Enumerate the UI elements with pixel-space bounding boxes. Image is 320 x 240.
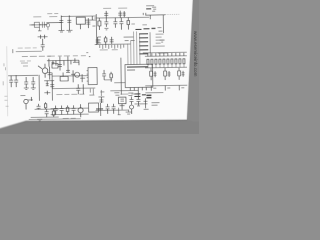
transistor Q800: [46, 23, 50, 30]
tick row below bus: [100, 45, 124, 49]
labels above cluster: [48, 55, 86, 58]
dark blob component: [146, 95, 151, 98]
resistor R806: [52, 109, 55, 117]
cluster x42-56: [44, 81, 54, 95]
diode D802: [134, 98, 148, 109]
right gray bar: [187, 0, 201, 122]
IC U1 label: [127, 67, 148, 70]
resistor R830 left of IC: [110, 72, 113, 82]
capacitor C806: [118, 11, 126, 18]
resistor R808: [66, 105, 69, 114]
capacitor C812 above bus: [110, 36, 135, 43]
transistor QG (green amp): [164, 68, 171, 80]
bottom center row rails: [51, 108, 89, 115]
capacitor C807: [104, 18, 108, 30]
capacitor C818: [45, 109, 49, 117]
wire: bottom-left rail y116.5: [31, 116, 59, 118]
wire: rail y110.5: [96, 109, 129, 111]
label: top-left values: [33, 14, 58, 17]
ticks below U802: [89, 89, 94, 96]
capacitor C816 with ground: [31, 77, 36, 90]
capacitor C809: [146, 8, 151, 10]
capacitor C801: [42, 22, 47, 28]
capacitor C814: [14, 75, 18, 87]
wire: vertical x52 center: [51, 73, 53, 101]
ground for C802: [58, 28, 64, 32]
resistor R802: [98, 18, 101, 30]
label bottom: [63, 117, 76, 119]
wire: vertical left of IC: [120, 58, 123, 95]
wire: right rail y57 with ticks: [145, 53, 187, 57]
resistor R801: [31, 22, 41, 31]
wire: to filter caps: [46, 21, 61, 23]
transistor Q804: [129, 96, 140, 114]
transistor Q805: [24, 97, 33, 110]
wire: rail y93.5: [145, 92, 163, 94]
wire: rail y68.5: [145, 66, 187, 69]
wire: vertical x150.5: [149, 32, 151, 56]
label mid: [100, 49, 118, 51]
bracket marks right of x97: [86, 37, 101, 53]
label Q805: [20, 95, 25, 97]
resistor ladder blobs: [139, 34, 148, 54]
wire: below IC horizontal: [110, 89, 138, 91]
cluster center-left lower: [47, 63, 85, 83]
resistor array row: [147, 59, 185, 65]
wire: vertical drop x164: [162, 15, 164, 33]
capacitor C802: [59, 15, 63, 28]
capacitor C813: [8, 75, 38, 87]
wire: top-right rail: [143, 12, 179, 19]
capacitor C811 above bus: [96, 37, 100, 44]
wire: main horizontal bus: [95, 43, 131, 46]
vertical bus into IC: [128, 31, 140, 64]
IC U802 vertical box: [87, 67, 98, 84]
capacitor C826: [129, 96, 133, 104]
capacitor C808: [113, 18, 117, 28]
label: top-right: [146, 5, 154, 7]
dense cluster center-left: [47, 56, 79, 72]
left edge marks: [3, 63, 9, 106]
transistor QB (blue amp): [178, 68, 185, 80]
resistor R805: [44, 102, 47, 109]
capacitor C810: [157, 28, 164, 43]
wire: rail y88: [52, 87, 95, 90]
wire: rail y86.5: [145, 84, 187, 87]
capacitor C823: [72, 105, 76, 114]
capacitor C817: [37, 104, 41, 110]
leads below rail: [151, 85, 184, 90]
label right-bottom: [152, 103, 160, 106]
ground for C803: [66, 28, 72, 32]
IC U804 box: [118, 97, 126, 110]
capacitor C804: [85, 16, 96, 28]
capacitor C830 left of IC: [102, 70, 106, 80]
IC pins bottom: [128, 87, 146, 96]
bottom-mid-right cluster: [96, 97, 105, 109]
ground bottom-left: [37, 119, 42, 121]
gray scanner background: [0, 0, 199, 134]
dark blob below IC: [134, 94, 146, 97]
wire: stub into IC left: [104, 80, 125, 83]
capacitor C824: [106, 104, 110, 114]
component cluster left-mid: [38, 35, 48, 51]
marks lower-left of IC: [100, 90, 119, 96]
label dash row 2: [22, 55, 51, 57]
wire: bottom-left rail y108.5: [35, 108, 59, 110]
node dots top: [61, 15, 70, 17]
wire: vertical x100: [100, 103, 102, 116]
capacitor C825: [112, 104, 116, 114]
transistor Q803: [78, 104, 83, 117]
node dot: [89, 56, 90, 58]
resistor R804 above bus: [104, 36, 107, 45]
resistor R803: [152, 7, 156, 11]
wire: bottom frame line: [29, 118, 81, 121]
shadow edge along bottom band: [0, 120, 187, 129]
wire: vertical feed: [95, 14, 97, 45]
wire: vertical x39: [38, 75, 40, 101]
white schematic paper: [0, 0, 193, 130]
capacitor C815 with ground: [24, 77, 29, 90]
capacitor C803: [67, 15, 71, 28]
label left: [21, 63, 28, 66]
watermark text in right bar: [193, 31, 198, 77]
wire: rail y75.5: [52, 75, 88, 78]
label above cluster: [120, 93, 136, 95]
resistor row bottom leads: [148, 64, 184, 68]
wire: right rail y53.5: [143, 51, 187, 54]
IC U803 box: [89, 103, 99, 112]
label line row 1: [13, 48, 42, 53]
wire: top-left horizontal: [29, 24, 46, 26]
bottom gray band shading: [0, 0, 201, 136]
svg-text:www.eserviceinfo.com: www.eserviceinfo.com: [193, 31, 198, 77]
label dash row 3: [20, 60, 31, 62]
IC U1 main: [125, 64, 153, 87]
wire: top rail: [61, 15, 96, 17]
capacitor C821: [54, 106, 58, 115]
capacitor C822: [60, 105, 64, 114]
label column right of ladder: [153, 34, 168, 53]
transistor Q801: [119, 18, 129, 30]
capacitor C805: [104, 11, 108, 18]
transistor Q802: [38, 64, 48, 78]
regulator U801: [76, 17, 85, 29]
faint left frame line: [6, 46, 9, 116]
ground marks bottom-center: [118, 108, 132, 115]
label: top-center values: [103, 7, 127, 9]
label dashes under rail: [56, 93, 84, 95]
cluster 74-86: [76, 84, 83, 94]
diode D801: [131, 24, 155, 30]
wire: top-center rail: [94, 16, 149, 19]
transistor QR (red amp): [150, 68, 157, 80]
